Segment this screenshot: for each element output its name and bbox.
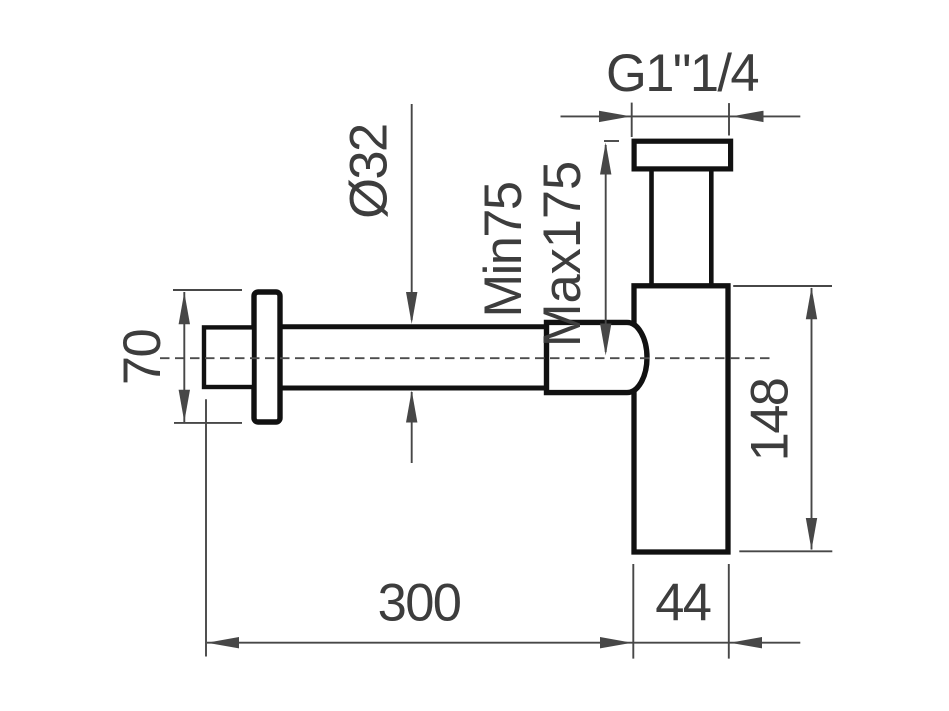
- svg-text:300: 300: [378, 574, 461, 633]
- dimension Min75/Max175: [600, 141, 619, 356]
- dimension Ø32: [406, 104, 417, 463]
- svg-text:70: 70: [113, 330, 172, 386]
- dimension G1"1/4: [561, 103, 801, 137]
- wall flange: [254, 292, 280, 422]
- pipe stub left end: [204, 327, 254, 387]
- horizontal outlet pipe: [281, 327, 549, 388]
- trap inlet sleeve: [547, 322, 648, 392]
- dimension 300 and 44: [206, 399, 800, 658]
- svg-text:44: 44: [655, 574, 711, 633]
- top nut cap: [634, 141, 731, 169]
- dimension 70: [173, 290, 242, 423]
- bottle trap body: [634, 286, 728, 552]
- dimension 148: [733, 286, 832, 551]
- svg-text:148: 148: [741, 379, 800, 462]
- centerline dashed: [160, 357, 772, 359]
- svg-text:Max175: Max175: [533, 161, 592, 347]
- vertical inlet pipe: [652, 160, 712, 286]
- svg-text:Ø32: Ø32: [340, 124, 399, 218]
- svg-text:G1"1/4: G1"1/4: [606, 44, 758, 103]
- svg-text:Min75: Min75: [474, 183, 533, 318]
